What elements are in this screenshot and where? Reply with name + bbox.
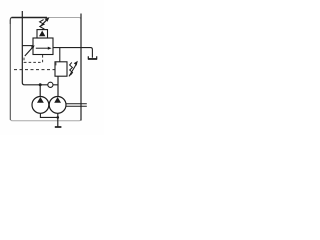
- wire: valve outlet to tank (drain line): [53, 48, 92, 58]
- enclosure pump-unit boundary (rounded frame, light segments): [10, 18, 81, 121]
- enclosure right side dark segment (with stub above corner): [80, 14, 82, 121]
- dashed pilot line to compensator: [14, 69, 55, 71]
- wire: riser to pump P1: [39, 85, 41, 97]
- wire: relief valve inlet branch: [22, 45, 33, 47]
- compensator spring (right side): [70, 62, 73, 75]
- wire: main pressure line left column: [22, 18, 58, 85]
- pump P2 circle: [49, 97, 66, 114]
- relief valve U1 main box: [33, 38, 53, 55]
- pivot circle on control wire: [48, 82, 53, 87]
- pump P2 outlet triangle: [54, 97, 61, 103]
- tank T1 (external drain tank): [88, 56, 96, 59]
- enclosure top-left dark segment: [10, 18, 12, 25]
- enclosure left side dark segment: [9, 20, 11, 120]
- wire: suction line P2 bottom to tank: [57, 113, 59, 126]
- wire: suction line P1 bottom: [40, 113, 57, 117]
- drive shaft (double line): [66, 103, 87, 105]
- tank T2 (suction tank): [55, 126, 62, 128]
- pump P1 circle: [32, 97, 49, 114]
- compensator box inner tick: [55, 62, 57, 65]
- wire: compensator to pump P2 riser: [57, 76, 59, 97]
- relief valve adjustment arrow (diagonal): [25, 47, 33, 56]
- spring adjustment arrow: [40, 20, 46, 27]
- relief valve flow-path arrow: [36, 47, 49, 49]
- compensator valve U2 box: [55, 62, 67, 76]
- port stub (pressure outlet above enclosure): [21, 11, 23, 18]
- pilot box with filled triangle: [37, 30, 48, 38]
- pump P1 outlet triangle: [37, 97, 44, 103]
- compensator adjustment arrow: [69, 64, 76, 76]
- junction node A: [39, 83, 42, 86]
- junction node B: [57, 116, 60, 119]
- wire: compensator supply column: [59, 48, 61, 62]
- dashed mechanical feedback link (valve bottom to adjustment arrow): [24, 55, 43, 62]
- spring (adjustable) above pilot box: [40, 20, 44, 30]
